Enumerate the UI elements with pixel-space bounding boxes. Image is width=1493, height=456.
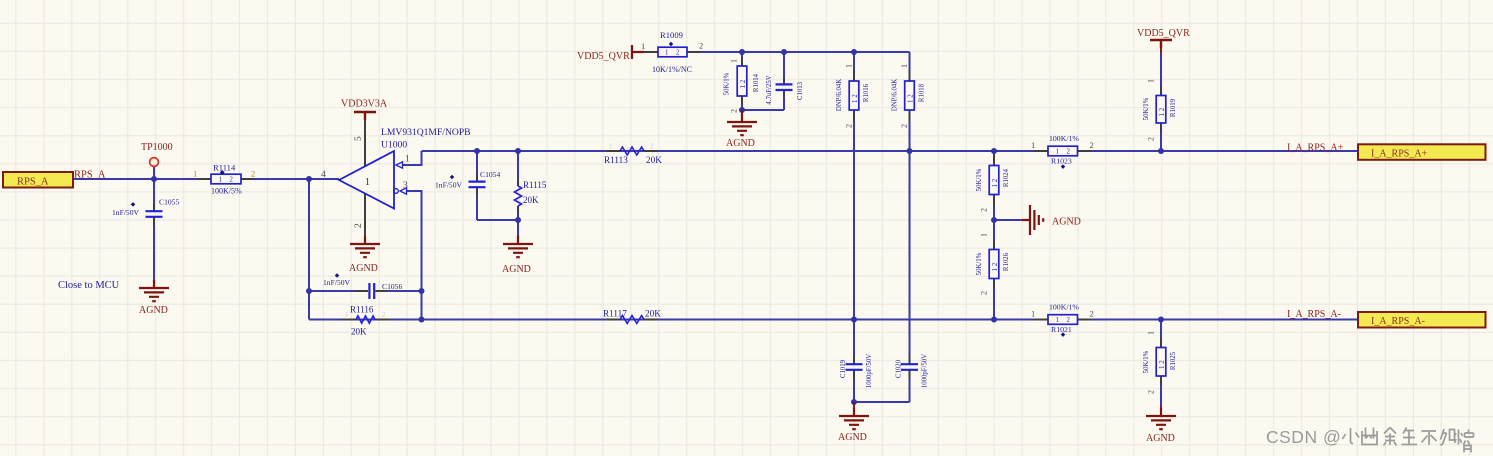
power VDD5_QVR (right) [1137, 28, 1190, 53]
svg-text:U1000: U1000 [381, 140, 407, 151]
svg-text:C1054: C1054 [480, 170, 500, 179]
svg-text:C1020: C1020 [896, 359, 903, 378]
svg-text:RPS_A: RPS_A [17, 177, 49, 188]
wire C1013 branch [783, 52, 785, 110]
op-amp U1000 [321, 127, 471, 228]
svg-text:LMV931Q1MF/NOPB: LMV931Q1MF/NOPB [381, 127, 471, 138]
svg-text:VDD5_QVR: VDD5_QVR [577, 51, 630, 62]
wire C1054 branch [476, 151, 478, 220]
svg-text:1: 1 [219, 177, 222, 184]
svg-text:C1013: C1013 [797, 81, 804, 100]
op-amp pin1 output glyph [396, 162, 403, 168]
resistor R1018 [892, 64, 926, 128]
svg-text:R1024: R1024 [1003, 168, 1010, 187]
resistor R1116 [342, 305, 389, 337]
svg-text:10K/1%/NC: 10K/1%/NC [652, 65, 692, 74]
resistor R1114 [193, 163, 255, 196]
svg-text:R1019: R1019 [1170, 98, 1177, 117]
svg-text:R1009: R1009 [660, 30, 683, 40]
svg-text:DNP/6.04K: DNP/6.04K [836, 79, 843, 111]
svg-text:100K/1%: 100K/1% [1049, 303, 1079, 312]
wire op-amp pin5 [364, 119, 366, 166]
svg-text:1nF/50V: 1nF/50V [435, 181, 463, 190]
svg-text:R1014: R1014 [753, 73, 760, 92]
svg-text:20K: 20K [351, 327, 367, 337]
svg-text:50K/1%: 50K/1% [724, 72, 731, 95]
capacitor C1055 [112, 198, 179, 227]
svg-text:TP1000: TP1000 [141, 142, 173, 153]
svg-text:1 2: 1 2 [1158, 107, 1166, 116]
wire op-amp pin1 to row1 [402, 151, 422, 165]
svg-text:R1116: R1116 [350, 305, 374, 315]
svg-text:2: 2 [354, 223, 364, 228]
svg-text:Close to MCU: Close to MCU [58, 280, 120, 291]
svg-text:1: 1 [1031, 140, 1035, 150]
svg-text:I_A_RPS_A+: I_A_RPS_A+ [1371, 149, 1428, 160]
svg-text:1 2: 1 2 [991, 262, 999, 271]
svg-text:20K: 20K [646, 155, 662, 165]
svg-text:2: 2 [382, 311, 386, 319]
svg-text:AGND: AGND [838, 432, 867, 443]
svg-text:1nF/50V: 1nF/50V [112, 208, 140, 217]
svg-text:AGND: AGND [1052, 217, 1081, 228]
svg-text:20K: 20K [645, 309, 661, 319]
svg-text:AGND: AGND [1146, 433, 1175, 444]
svg-text:1: 1 [730, 59, 739, 63]
wire C1056 feedback row [309, 290, 422, 292]
svg-text:AGND: AGND [349, 263, 378, 274]
resistor R1023 [1031, 134, 1094, 169]
svg-text:AGND: AGND [139, 305, 168, 316]
capacitor C1056 [323, 273, 402, 299]
svg-text:1000pF/50V: 1000pF/50V [866, 354, 873, 388]
resistor R1026 [976, 233, 1010, 295]
svg-text:RPS_A: RPS_A [74, 170, 106, 181]
port RPS_A [3, 172, 73, 188]
wire C1055 branch [153, 179, 155, 283]
svg-text:2: 2 [980, 291, 989, 295]
svg-text:R1114: R1114 [213, 163, 236, 173]
ground AGND (under R1014) [726, 110, 757, 149]
svg-text:20K: 20K [523, 195, 539, 205]
wire op-amp pin3 down [406, 191, 422, 320]
wire R1115 branch [517, 151, 519, 220]
svg-text:1 2: 1 2 [739, 79, 747, 88]
svg-text:1: 1 [900, 64, 909, 68]
svg-text:1 2: 1 2 [1158, 360, 1166, 369]
svg-text:R1113: R1113 [604, 155, 628, 165]
wire R1014 branch [742, 52, 784, 110]
wire left feedback vertical [308, 179, 310, 320]
svg-text:1: 1 [1056, 149, 1059, 156]
svg-text:2: 2 [650, 143, 654, 151]
test point TP1000 [141, 142, 173, 166]
capacitor C1054 [435, 170, 500, 195]
svg-text:R1025: R1025 [1170, 351, 1177, 370]
svg-text:1: 1 [845, 64, 854, 68]
svg-text:1 2: 1 2 [851, 94, 859, 103]
capacitor C1013 [766, 75, 804, 104]
svg-text:R1117: R1117 [603, 309, 627, 319]
svg-text:R1023: R1023 [1051, 157, 1072, 166]
svg-text:R1115: R1115 [523, 180, 547, 190]
svg-text:2: 2 [980, 208, 989, 212]
svg-text:2: 2 [730, 109, 739, 113]
power port VDD5_QVR (left) [577, 45, 644, 62]
svg-text:4.7uF/25V: 4.7uF/25V [766, 75, 773, 104]
svg-text:5: 5 [354, 136, 364, 141]
svg-text:100K/1%: 100K/1% [1049, 134, 1079, 143]
port I_A_RPS_A+ [1358, 144, 1486, 160]
resistor R1016 [836, 64, 870, 128]
svg-text:2: 2 [1067, 149, 1071, 156]
wire output row1 [422, 150, 1358, 152]
wire middle divider column [993, 151, 995, 320]
svg-text:R1026: R1026 [1003, 252, 1010, 271]
power VDD3V3A [341, 99, 388, 121]
svg-text:2: 2 [699, 41, 703, 51]
ground AGND (op-amp pin2) [349, 236, 380, 274]
svg-text:1: 1 [1056, 317, 1059, 324]
wire TP1000 stub [153, 167, 155, 180]
svg-text:VDD3V3A: VDD3V3A [341, 99, 388, 110]
svg-text:DNP/6.04K: DNP/6.04K [892, 79, 899, 111]
svg-text:1000pF/50V: 1000pF/50V [922, 354, 929, 388]
svg-text:2: 2 [1067, 317, 1071, 324]
resistor R1117 [603, 309, 661, 324]
svg-text:2: 2 [1147, 137, 1156, 141]
svg-text:1: 1 [1147, 79, 1156, 83]
svg-text:R1018: R1018 [919, 83, 926, 102]
svg-text:1: 1 [1031, 309, 1035, 319]
ground AGND (bottom middle) [838, 402, 869, 443]
svg-text:4: 4 [321, 170, 326, 180]
svg-text:2: 2 [251, 169, 255, 179]
svg-text:2: 2 [1147, 390, 1156, 394]
svg-text:1: 1 [609, 143, 613, 151]
svg-text:1nF/50V: 1nF/50V [323, 278, 351, 287]
svg-text:I_A_RPS_A-: I_A_RPS_A- [1371, 316, 1425, 327]
resistor R1014 [724, 57, 761, 113]
wire input row RPS_A to op-amp [73, 178, 339, 180]
capacitor C1020 [896, 354, 929, 388]
ground AGND (bottom right) [1146, 406, 1176, 444]
svg-text:2: 2 [900, 124, 909, 128]
ground AGND (under R1115) [502, 235, 533, 275]
wire C1054/R1115 bottom link [477, 220, 518, 236]
svg-text:1: 1 [193, 169, 197, 179]
resistor R1024 [976, 155, 1010, 212]
resistor R1009 [641, 30, 703, 74]
svg-text:50K/1%: 50K/1% [976, 252, 983, 275]
svg-text:VDD5_QVR: VDD5_QVR [1137, 28, 1190, 39]
svg-text:AGND: AGND [502, 264, 531, 275]
resistor R1115 [514, 179, 546, 213]
capacitor C1019 [840, 354, 873, 388]
svg-text:100K/5%: 100K/5% [211, 187, 242, 196]
svg-text:2: 2 [845, 124, 854, 128]
svg-text:1 2: 1 2 [991, 178, 999, 187]
svg-text:1: 1 [641, 41, 645, 51]
svg-text:50K/1%: 50K/1% [1143, 350, 1150, 373]
svg-text:1: 1 [1147, 331, 1156, 335]
svg-text:2: 2 [1090, 140, 1094, 150]
svg-text:1: 1 [345, 311, 349, 319]
svg-text:I_A_RPS_A+: I_A_RPS_A+ [1287, 143, 1344, 154]
resistor R1019 [1143, 79, 1177, 141]
watermark CSDN [1266, 427, 1474, 453]
svg-text:1: 1 [665, 50, 668, 57]
wire op-amp pin2 [364, 194, 366, 236]
svg-text:1: 1 [365, 177, 370, 188]
wire right top branch [1160, 53, 1162, 151]
svg-text:AGND: AGND [726, 138, 755, 149]
svg-text:C1019: C1019 [840, 359, 847, 378]
wire middle AGND tap [994, 219, 1022, 221]
wire vertical branch x910 [854, 52, 910, 402]
svg-text:R1016: R1016 [863, 83, 870, 102]
resistor R1025 [1143, 331, 1177, 394]
svg-text:1: 1 [980, 233, 989, 237]
svg-text:50K/1%: 50K/1% [1143, 97, 1150, 120]
svg-text:I_A_RPS_A-: I_A_RPS_A- [1287, 309, 1341, 320]
svg-text:50K/1%: 50K/1% [976, 168, 983, 191]
wire vertical branch x854 [853, 52, 855, 402]
ground AGND (middle, rotated) [1022, 205, 1081, 235]
svg-text:2: 2 [230, 177, 234, 184]
svg-text:R1021: R1021 [1051, 325, 1072, 334]
svg-text:C1056: C1056 [382, 282, 402, 291]
wire top rail [644, 51, 910, 53]
svg-text:C1055: C1055 [159, 198, 179, 207]
wire right bottom branch [1160, 320, 1162, 407]
svg-text:1: 1 [405, 155, 410, 165]
resistor R1113 [604, 143, 662, 166]
svg-text:2: 2 [1090, 309, 1094, 319]
svg-text:CSDN @: CSDN @ [1266, 427, 1341, 447]
resistor R1021 [1031, 303, 1094, 337]
port I_A_RPS_A- [1358, 312, 1486, 328]
svg-text:2: 2 [676, 50, 680, 57]
wire row2 [309, 319, 1358, 321]
op-amp pin3 glyph [394, 189, 399, 194]
svg-text:1 2: 1 2 [907, 94, 915, 103]
ground AGND (under C1055) [139, 280, 169, 316]
